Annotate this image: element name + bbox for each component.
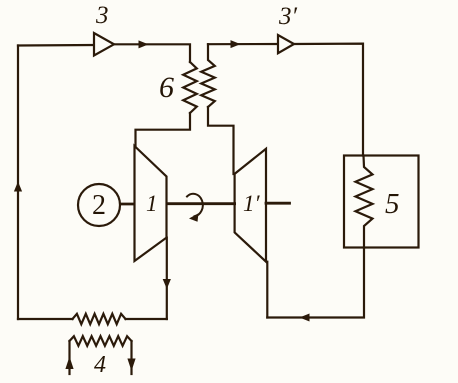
generator 2 xyxy=(78,184,120,226)
wire regenerator to valve 3' xyxy=(208,43,278,45)
svg-text:1: 1 xyxy=(146,191,158,216)
turbine 1' xyxy=(235,149,266,262)
regenerator 6 left coil xyxy=(183,62,197,113)
shaft stub right of turbine 1' xyxy=(266,202,290,205)
heater 5 box xyxy=(344,156,419,248)
svg-text:3: 3 xyxy=(95,2,109,29)
wire compressor discharge xyxy=(166,238,168,319)
valve 3' xyxy=(278,35,294,53)
svg-text:1′: 1′ xyxy=(243,191,261,216)
wire top-left to valve 3 xyxy=(18,44,94,47)
flow arrow left on bottom-right wire xyxy=(300,314,310,322)
wire cooler to compressor discharge corner xyxy=(126,318,167,320)
rotation arrow on shaft xyxy=(187,194,203,217)
heater 5 coil xyxy=(356,156,373,248)
wire turbine 1' exhaust xyxy=(266,262,268,318)
flow arrow right after valve 3 xyxy=(139,40,149,48)
wire valve 3' to heater 5 xyxy=(294,44,363,156)
svg-text:5: 5 xyxy=(385,188,400,220)
svg-text:3′: 3′ xyxy=(278,3,298,30)
shaft compressor to turbine xyxy=(167,202,235,205)
cooler 4 inline coil xyxy=(73,314,126,324)
cooler water outlet hook xyxy=(130,341,132,374)
water inlet arrow up xyxy=(65,357,73,370)
shaft generator to compressor xyxy=(120,203,135,206)
wire bottom left xyxy=(18,318,73,320)
flow arrow down on compressor discharge xyxy=(163,279,171,289)
svg-text:6: 6 xyxy=(159,71,174,104)
valve 3 xyxy=(94,33,114,56)
svg-text:4: 4 xyxy=(94,352,106,378)
svg-text:2: 2 xyxy=(92,190,106,221)
wire left return riser xyxy=(17,46,19,320)
wire heater 5 to condensate line xyxy=(267,248,364,318)
wire valve 3 to regenerator top xyxy=(114,44,190,62)
cooler water inlet hook xyxy=(68,341,70,374)
compressor 1 xyxy=(135,146,167,261)
flow arrow before valve 3' xyxy=(231,40,241,48)
water outlet arrow down xyxy=(127,359,135,372)
wire regenerator right coil to turbine inlet xyxy=(208,107,234,174)
wire regenerator left coil to compressor inlet xyxy=(136,113,191,148)
rotation arrowhead xyxy=(189,213,199,222)
flow arrow up on left riser xyxy=(14,182,22,192)
regenerator 6 right coil xyxy=(201,44,215,107)
cooler 4 water coil xyxy=(70,336,132,346)
